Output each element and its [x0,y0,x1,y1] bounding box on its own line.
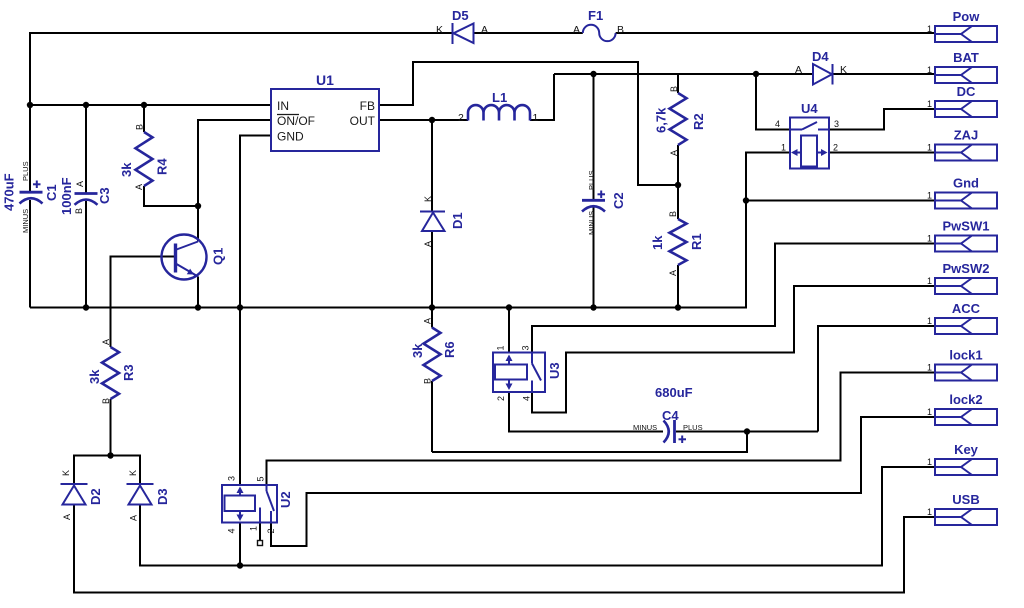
svg-text:R6: R6 [442,341,457,358]
wire USB to D2 anode rail [74,505,935,593]
wire Gnd to connector [746,200,935,202]
svg-text:1: 1 [496,345,506,350]
wire U4 pin1 to ground [746,153,790,201]
svg-text:A: A [75,181,85,187]
junction node GND at D1/R6 [429,304,435,310]
svg-text:R1: R1 [689,233,704,250]
svg-text:C1: C1 [44,184,59,201]
wire split to D3 cathode [111,456,141,485]
wire C2 top branch [593,74,595,200]
wire split to D2 cathode [74,456,111,485]
junction node BAT at C2 [590,71,596,77]
svg-text:U4: U4 [801,101,818,116]
svg-text:K: K [423,196,433,202]
relay U2 [222,476,293,534]
svg-text:R2: R2 [691,113,706,130]
svg-text:B: B [74,208,84,214]
svg-text:3: 3 [834,119,839,129]
svg-text:PLUS: PLUS [683,423,703,432]
svg-text:DC: DC [957,84,976,99]
wire lock2 to U2 pin2 [271,417,935,546]
relay U3 [493,345,562,401]
wire C1 bottom to ground rail [29,200,31,308]
wire U3 pin2 to C4 minus [509,392,663,432]
wire U1 GND pin down to U2 pin3 [240,136,271,486]
wire U4 pin2 to ZAJ connector [829,152,935,154]
connector USB [927,492,997,525]
capacitor C3 [59,177,112,215]
svg-text:FB: FB [360,99,375,113]
svg-text:PwSW2: PwSW2 [943,261,990,276]
svg-text:B: B [135,124,145,130]
connector lock2 [927,392,997,425]
svg-text:PLUS: PLUS [21,161,30,181]
diode D4 [795,49,847,85]
svg-text:K: K [61,470,71,476]
svg-text:1: 1 [927,457,932,467]
wire C4 plus to node [676,431,818,433]
wire D1 top branch [431,120,433,212]
junction node GND at Q1 emitter [195,304,201,310]
svg-text:IN: IN [277,99,289,113]
svg-text:A: A [795,64,802,76]
junction node IN at R4 [141,102,147,108]
wire U4 pin4 branch from BAT rail [756,74,790,130]
svg-text:A: A [573,24,580,36]
wire R4 top branch [143,105,145,132]
svg-text:3: 3 [521,345,531,350]
resistor R1 [650,211,704,276]
svg-text:470uF: 470uF [2,173,17,211]
svg-text:USB: USB [952,492,979,507]
node U2 pin1 terminator square [258,541,263,546]
capacitor C2 [582,170,626,235]
junction node IN at C3 [83,102,89,108]
svg-text:1: 1 [927,507,932,517]
junction node BAT at U4 branch [753,71,759,77]
svg-text:1: 1 [927,24,932,34]
junction node C4 plus [744,428,750,434]
wire ON/OF net [198,120,271,206]
junction node GND at R1 [675,304,681,310]
svg-text:1: 1 [927,407,932,417]
svg-text:D3: D3 [155,488,170,505]
svg-text:5: 5 [256,476,266,481]
svg-text:MINUS: MINUS [21,209,30,233]
svg-text:C4: C4 [662,408,679,423]
wire C3 bottom [85,201,87,308]
wire R1 bottom [677,265,679,308]
junction node GND at U4 pin1 [743,197,749,203]
svg-text:K: K [840,64,847,76]
wire U2 pin1 stub [259,523,261,541]
wire C2 bottom [593,208,595,308]
wire L1 right to BAT rail riser [530,74,554,120]
svg-text:2: 2 [458,112,464,124]
diode D1 [420,196,465,247]
svg-text:4: 4 [227,528,237,533]
svg-text:A: A [669,150,679,156]
svg-text:A: A [134,184,144,190]
svg-text:BAT: BAT [953,50,979,65]
svg-text:1: 1 [781,143,786,153]
wire Q1 collector [197,206,199,242]
wire FB net [379,62,678,185]
svg-text:B: B [669,86,679,92]
svg-text:1: 1 [927,99,932,109]
svg-text:B: B [617,24,624,36]
svg-text:D2: D2 [88,488,103,505]
svg-text:U3: U3 [547,362,562,379]
wire OUT net to L1 [379,119,468,121]
junction node GND at C3 [83,304,89,310]
svg-text:1: 1 [533,112,539,124]
svg-text:D1: D1 [450,212,465,229]
svg-text:A: A [481,24,488,36]
svg-text:3k: 3k [119,162,134,177]
svg-text:3k: 3k [410,343,425,358]
wire PwSW1 to U3 pin3 [532,244,935,353]
svg-text:1: 1 [927,65,932,75]
svg-text:3: 3 [227,476,237,481]
svg-text:B: B [101,398,111,404]
svg-text:R3: R3 [121,364,136,381]
svg-text:R4: R4 [155,158,170,175]
svg-text:C3: C3 [97,187,112,204]
svg-text:lock1: lock1 [949,348,982,363]
svg-text:U1: U1 [316,72,334,88]
svg-text:Gnd: Gnd [953,176,979,191]
connector Pow [927,9,997,42]
wire R4 bottom to ON/OF [144,186,198,206]
wire R6 bottom [431,381,433,452]
junction node FB at R2/R1 [675,182,681,188]
junction node GND at U3 pin1 [506,304,512,310]
inductor L1 [458,90,539,124]
svg-text:680uF: 680uF [655,385,693,400]
relay U4 [775,101,839,169]
svg-text:100nF: 100nF [59,177,74,215]
connector PwSW2 [927,261,997,294]
svg-text:A: A [668,270,678,276]
wire U4 pin3 to DC connector [829,109,935,130]
junction node ON/OF at R4 bottom [195,203,201,209]
connector DC [927,84,997,117]
junction node IN at C1 [27,102,33,108]
wire U3 pin1 from rail [508,308,510,353]
svg-text:Key: Key [954,442,979,457]
svg-text:GND: GND [277,130,304,144]
diode D2 [61,470,104,520]
connector BAT [927,50,997,83]
wire U2 pin4 branch [239,523,241,566]
svg-text:B: B [668,211,678,217]
svg-text:2: 2 [496,396,506,401]
svg-text:1: 1 [927,276,932,286]
svg-text:D4: D4 [812,49,829,64]
wire Pow net top rail left segment [30,33,453,192]
svg-text:1: 1 [927,316,932,326]
resistor R2 [654,86,707,156]
svg-text:A: A [423,241,433,247]
wire PwSW2 to U3 pin4 [532,286,935,413]
svg-text:ON/OF: ON/OF [277,114,315,128]
svg-text:Q1: Q1 [211,248,226,265]
op-amp U1 regulator box [271,72,379,151]
resistor R4 [119,124,170,190]
wire R2 top branch [677,74,679,93]
svg-text:C2: C2 [611,192,626,209]
svg-text:PwSW1: PwSW1 [943,219,990,234]
svg-text:ACC: ACC [952,301,981,316]
junction node OUT at D1 [429,117,435,123]
wire D1 bottom through rail to R6 [431,231,433,328]
svg-text:1: 1 [927,143,932,153]
wire D4 cathode to BAT connector [833,73,936,75]
svg-text:Pow: Pow [953,9,981,24]
svg-text:2: 2 [266,528,276,533]
svg-text:1: 1 [927,363,932,373]
svg-text:D5: D5 [452,8,469,23]
wire Q1 base to R3 [111,257,176,348]
wire Key to D3 anode rail [140,467,935,566]
svg-text:2: 2 [833,143,838,153]
fuse F1 [573,8,624,41]
svg-text:MINUS: MINUS [633,423,657,432]
wire IN net horizontal to U1 [30,104,271,106]
wire Pow net between D5 and F1 [474,32,583,34]
wire Pow net from F1 to Pow connector [616,32,935,34]
svg-text:U2: U2 [278,491,293,508]
wire ground rail [30,201,746,308]
svg-text:A: A [423,318,433,324]
junction node GND at U1/U2 [237,304,243,310]
diode D5 [436,8,488,44]
resistor R3 [87,339,136,404]
svg-text:3k: 3k [87,369,102,384]
connector PwSW1 [927,219,997,252]
wire Q1 emitter to rail [197,277,199,308]
svg-text:4: 4 [775,119,780,129]
wire R1 top [677,185,679,219]
svg-text:F1: F1 [588,8,603,23]
svg-text:ZAJ: ZAJ [954,128,979,143]
wire C3 top branch [85,105,87,194]
capacitor C1 [2,161,60,233]
svg-text:A: A [62,514,72,520]
connector ACC [927,301,997,334]
connector Key [927,442,997,475]
svg-text:lock2: lock2 [949,392,982,407]
svg-text:MINUS: MINUS [587,211,596,235]
svg-text:A: A [101,339,111,345]
svg-text:K: K [436,24,443,36]
wire lock1 to U2 pin5 [267,373,936,486]
transistor Q1 [162,235,226,280]
connector Gnd [927,176,997,209]
svg-text:PLUS: PLUS [587,170,596,190]
junction node R3/D2/D3 [107,452,113,458]
wire ACC to C4 plus node [818,326,935,432]
wire node down to R6 line [432,432,747,453]
wire BAT rail to D4 anode [554,73,813,75]
junction node U2 pin4 rail [237,562,243,568]
svg-text:1: 1 [927,234,932,244]
resistor R6 [410,318,457,384]
svg-text:B: B [423,378,433,384]
junction node GND at C2 [590,304,596,310]
connector ZAJ [927,128,997,161]
svg-text:OUT: OUT [350,114,376,128]
svg-text:1: 1 [927,191,932,201]
svg-text:L1: L1 [492,90,507,105]
svg-text:1: 1 [249,526,259,531]
svg-text:6,7k: 6,7k [654,107,669,133]
capacitor C4 [633,385,703,443]
svg-text:A: A [129,515,139,521]
svg-text:4: 4 [522,396,532,401]
connector lock1 [927,348,997,381]
wire R3 bottom to diode split [110,399,112,456]
wire R2 bottom [677,145,679,185]
svg-text:1k: 1k [650,235,665,250]
diode D3 [127,470,171,521]
svg-text:K: K [128,470,138,476]
